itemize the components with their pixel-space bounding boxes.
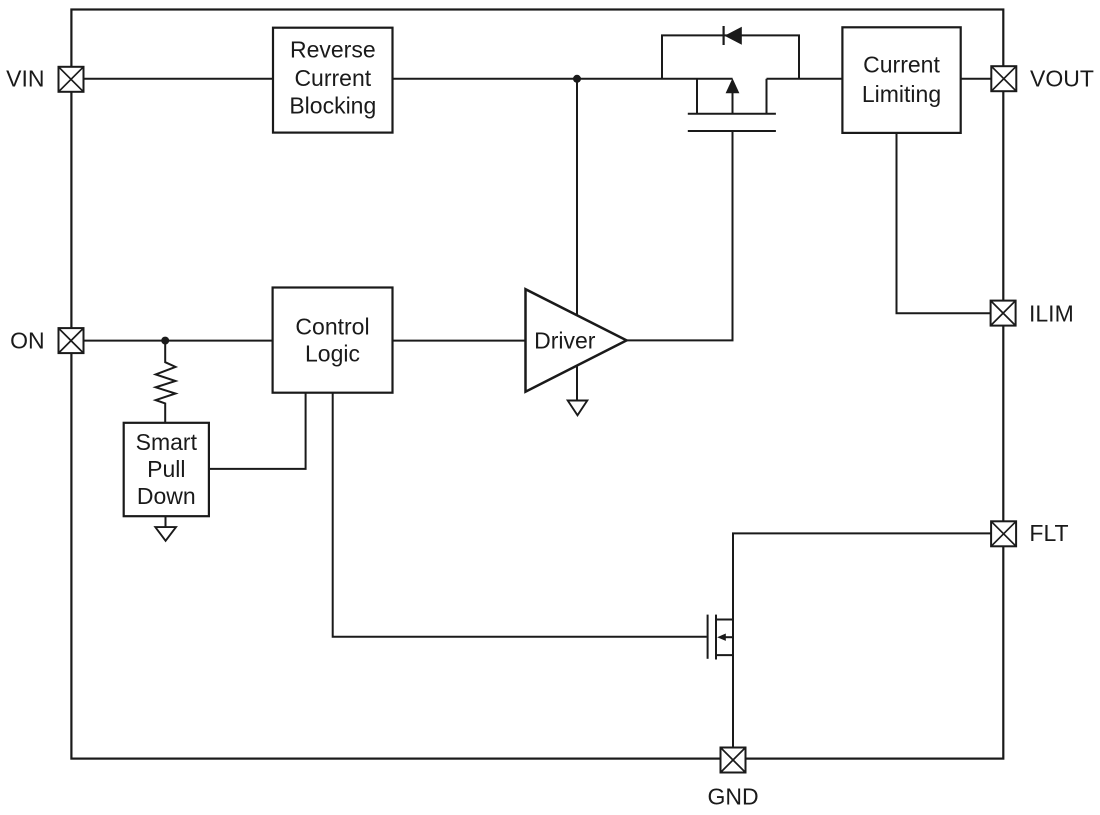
op-amp U1 Driver [526, 289, 627, 392]
IC outer boundary [71, 10, 1003, 759]
wire ON to Control Logic to Driver input [84, 340, 526, 342]
svg-text:ON: ON [10, 327, 45, 353]
diode D1 (body diode) [724, 26, 742, 45]
svg-text:Down: Down [137, 483, 196, 509]
svg-text:Blocking: Blocking [289, 92, 376, 118]
resistor R1 (ON pull-down) [156, 341, 176, 423]
wire Control Logic to Q2 gate [333, 393, 707, 637]
wire driver supply (VIN node down through driver to ground) [576, 79, 578, 401]
svg-text:Reverse: Reverse [290, 36, 376, 62]
svg-text:GND: GND [707, 783, 758, 809]
svg-text:VOUT: VOUT [1030, 65, 1094, 91]
wire pass FET to VOUT (top rail right) [767, 78, 992, 80]
svg-text:ILIM: ILIM [1029, 301, 1074, 327]
wire Control Logic to Smart Pull Down [209, 393, 306, 469]
svg-text:Limiting: Limiting [862, 81, 941, 107]
svg-text:FLT: FLT [1029, 520, 1068, 546]
block: Smart Pull Down [124, 423, 209, 516]
node junction on VIN rail [573, 75, 581, 83]
wire Q1 gate to driver output [627, 131, 733, 340]
svg-text:Control: Control [295, 313, 369, 339]
svg-text:VIN: VIN [6, 66, 44, 92]
block: Current Limiting [842, 27, 960, 133]
pin FLT [991, 521, 1016, 546]
ground symbol under Smart Pull Down [155, 527, 176, 541]
transistor Q1 pass PMOS [688, 78, 776, 131]
ground symbol under driver [568, 401, 588, 416]
svg-text:Current: Current [294, 65, 371, 91]
pin GND [721, 748, 746, 773]
svg-text:Smart: Smart [136, 429, 198, 455]
pin ILIM [991, 301, 1016, 326]
wire FLT pin to Q2 drain and GND [733, 533, 992, 747]
svg-text:Logic: Logic [305, 341, 360, 367]
node junction on ON wire [161, 337, 169, 345]
wire Current Limiting to ILIM pin [897, 133, 992, 313]
svg-text:Driver: Driver [534, 327, 596, 353]
wire VIN to pass FET (top rail) [84, 78, 733, 80]
pin ON [59, 328, 84, 353]
wire Smart Pull Down to ground [165, 516, 167, 527]
svg-text:Pull: Pull [147, 456, 185, 482]
transistor Q2 fault NMOS [708, 615, 733, 660]
block: Reverse Current Blocking [273, 28, 393, 133]
wire body-diode loop [662, 35, 799, 78]
pin VOUT [991, 66, 1016, 91]
pin VIN [59, 67, 84, 92]
block: Control Logic [273, 288, 393, 393]
svg-text:Current: Current [863, 52, 940, 78]
